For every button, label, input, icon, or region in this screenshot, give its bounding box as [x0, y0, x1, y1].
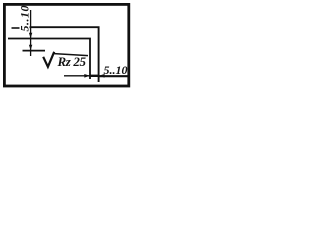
wire: contour L1 dash left of text: [12, 27, 20, 29]
wire: dimension ink between extension lines: [90, 75, 99, 77]
wire: contour L1 horizontal + vertical: [30, 27, 99, 82]
workpiece frame: [4, 4, 128, 86]
wire: dimension line extension under text: [99, 75, 129, 77]
wire: contour L2 horizontal + vertical: [8, 39, 90, 80]
wire: vertical dimension line: [30, 10, 32, 56]
roughness bar: [54, 54, 88, 56]
wire: contour L3 short surface line: [23, 50, 46, 52]
svg-text:5..10: 5..10: [104, 63, 128, 77]
wire: horizontal dimension line: [64, 75, 99, 77]
arrow left at L1v: [99, 74, 105, 78]
arrow right at L2v: [84, 74, 90, 78]
svg-text:Rz 25: Rz 25: [57, 54, 87, 69]
svg-text:5..10: 5..10: [17, 6, 31, 32]
roughness check mark: [43, 52, 54, 67]
arrow down at L3: [29, 45, 32, 51]
arrow down at L2: [29, 33, 32, 39]
